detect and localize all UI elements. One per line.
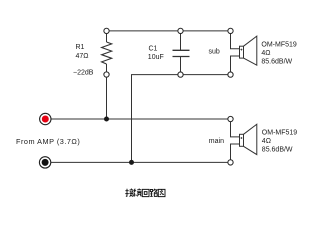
svg-text:85.6dB/W: 85.6dB/W	[262, 146, 293, 153]
node resistor top terminal	[104, 28, 109, 33]
speaker SP1 sub driver body	[240, 36, 257, 65]
speaker SP2 plus polarity mark	[240, 137, 242, 139]
wire sub speaker minus stub	[231, 56, 240, 75]
wire resistor lower lead to junction	[106, 64, 108, 119]
kanji 回	[142, 189, 149, 196]
wire resistor upper lead	[106, 31, 108, 42]
wire black line from amp to main speaker	[51, 161, 231, 163]
junction dot at R1 output on red line	[104, 117, 109, 122]
node capacitor top terminal	[178, 28, 183, 33]
svg-text:R1: R1	[76, 44, 85, 51]
terminal red (amp +)	[40, 113, 51, 124]
capacitor C1	[173, 50, 190, 56]
resistor R1	[102, 42, 112, 64]
node main speaker minus terminal	[228, 160, 233, 165]
junction dot sub return on black line	[129, 160, 134, 165]
speaker SP1 plus polarity mark	[240, 49, 242, 51]
svg-text:OM-MF519: OM-MF519	[261, 42, 297, 49]
kanji 接	[125, 189, 133, 197]
wire top bus	[107, 30, 231, 32]
wire main speaker plus stub	[231, 119, 240, 137]
speaker SP2 main driver body	[240, 124, 257, 154]
node capacitor bottom terminal	[178, 72, 183, 77]
wire red line from amp to main speaker	[51, 118, 231, 120]
terminal black (amp -)	[39, 157, 50, 168]
wire capacitor lower lead	[180, 57, 182, 75]
svg-text:4Ω: 4Ω	[262, 138, 271, 145]
node resistor bottom terminal	[104, 72, 109, 77]
svg-text:main: main	[209, 138, 224, 145]
svg-text:OM-MF519: OM-MF519	[262, 129, 298, 136]
svg-text:From AMP (3.7Ω): From AMP (3.7Ω)	[16, 137, 80, 146]
wire main speaker minus stub	[231, 144, 240, 162]
svg-text:10uF: 10uF	[148, 54, 164, 61]
svg-text:sub: sub	[209, 49, 220, 56]
svg-text:4Ω: 4Ω	[261, 50, 270, 57]
svg-text:85.6dB/W: 85.6dB/W	[261, 59, 292, 66]
svg-text:47Ω: 47Ω	[76, 53, 89, 60]
node sub speaker plus terminal	[228, 28, 233, 33]
wire sub return bus	[132, 75, 231, 163]
wire capacitor upper lead	[180, 31, 182, 50]
kanji 路	[150, 189, 157, 197]
svg-text:−22dB: −22dB	[73, 70, 94, 77]
wire sub speaker plus stub	[231, 31, 240, 49]
svg-text:C1: C1	[149, 46, 158, 53]
node main speaker plus terminal	[228, 116, 233, 121]
kanji 続	[133, 189, 142, 197]
node sub speaker minus terminal	[228, 72, 233, 77]
kanji 図	[158, 189, 165, 196]
title kanji setsuzoku kairozu (connection circuit diagram)	[125, 189, 165, 197]
